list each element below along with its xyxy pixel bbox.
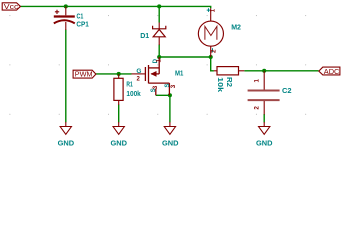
svg-text:GND: GND bbox=[58, 138, 75, 147]
svg-text:M1: M1 bbox=[175, 69, 183, 78]
svg-text:2: 2 bbox=[253, 106, 260, 110]
svg-text:100k: 100k bbox=[126, 89, 140, 98]
svg-text:1: 1 bbox=[210, 8, 217, 12]
svg-text:3: 3 bbox=[170, 84, 177, 88]
svg-text:GND: GND bbox=[162, 138, 179, 147]
svg-text:1: 1 bbox=[253, 79, 260, 83]
svg-text:PWM: PWM bbox=[75, 70, 93, 79]
svg-text:3: 3 bbox=[152, 85, 159, 89]
svg-text:1: 1 bbox=[155, 59, 162, 63]
svg-text:C2: C2 bbox=[282, 86, 292, 95]
svg-text:CP1: CP1 bbox=[76, 20, 88, 29]
svg-text:10k: 10k bbox=[216, 77, 225, 92]
svg-text:M2: M2 bbox=[231, 23, 241, 32]
svg-text:2: 2 bbox=[210, 49, 217, 53]
svg-text:G: G bbox=[136, 68, 141, 75]
svg-text:R2: R2 bbox=[225, 77, 234, 87]
svg-text:ADC: ADC bbox=[324, 67, 340, 76]
svg-text:Vcc: Vcc bbox=[4, 2, 19, 11]
svg-text:D1: D1 bbox=[140, 31, 149, 40]
svg-text:GND: GND bbox=[111, 138, 128, 147]
svg-text:R1: R1 bbox=[126, 80, 132, 89]
svg-text:GND: GND bbox=[256, 138, 273, 147]
